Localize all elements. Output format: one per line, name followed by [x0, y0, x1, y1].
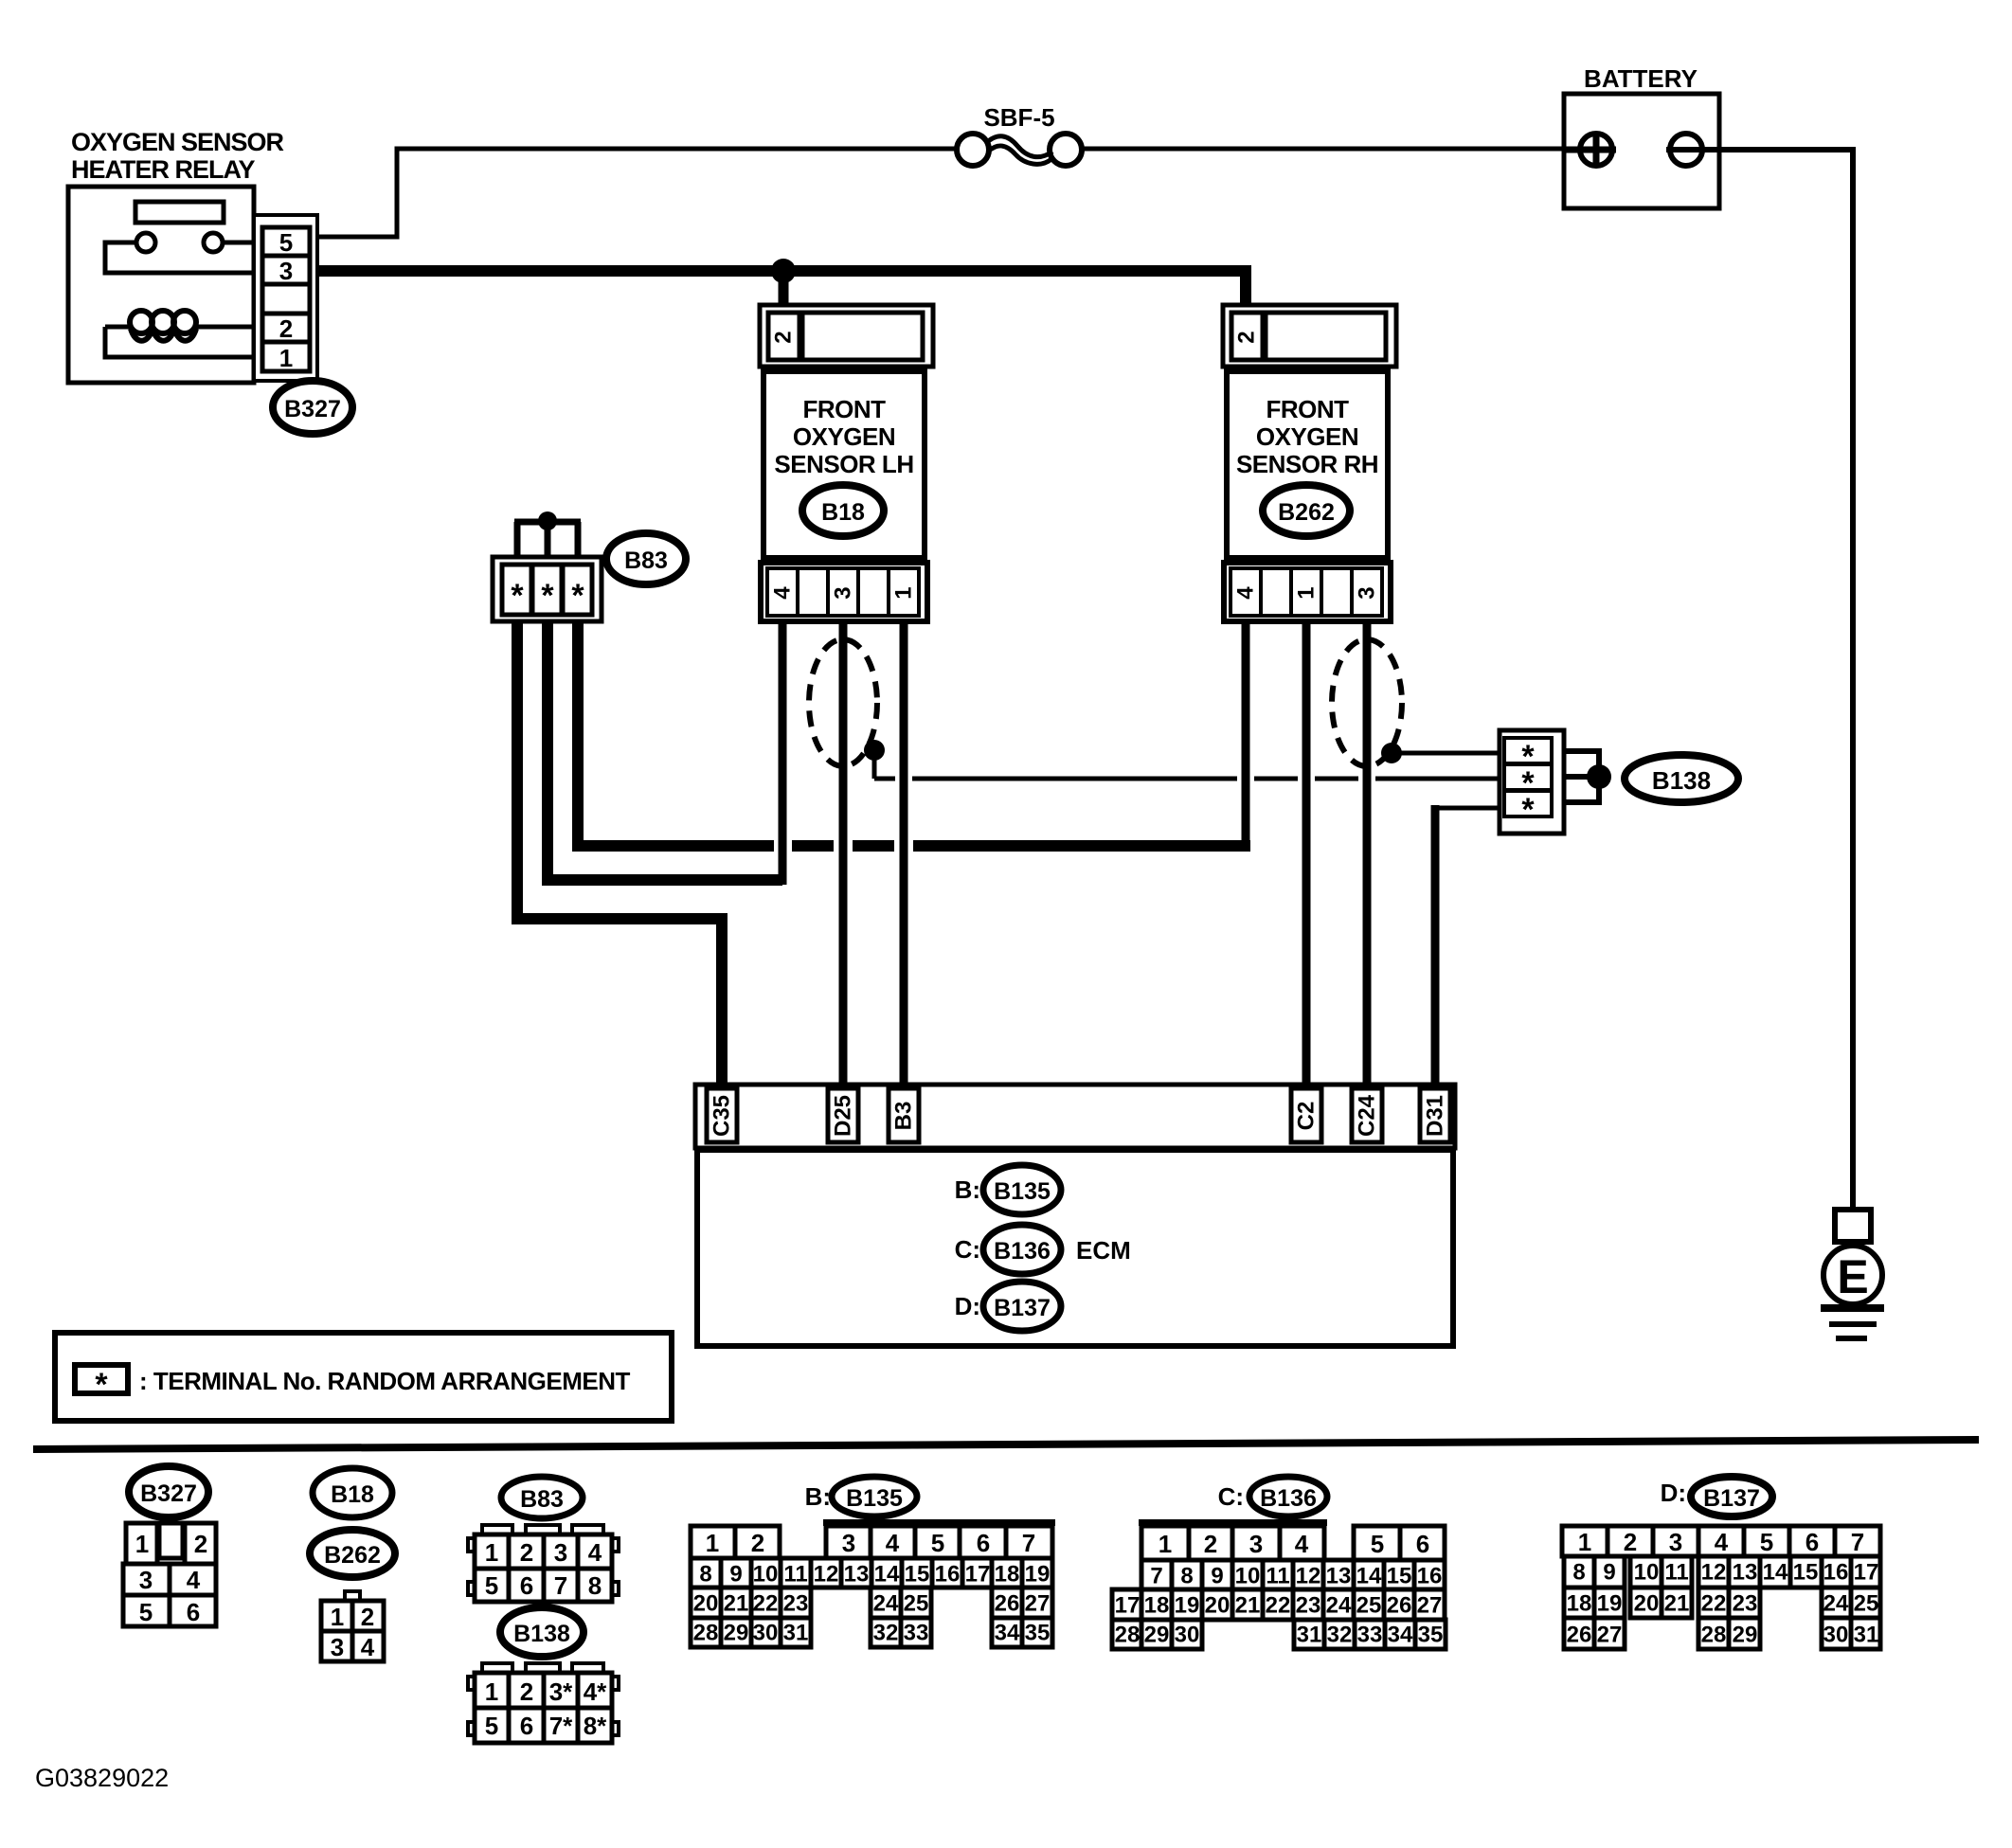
svg-text:B136: B136 — [1260, 1485, 1317, 1512]
svg-text:10: 10 — [1235, 1564, 1261, 1589]
B83 oval label — [606, 533, 686, 584]
svg-text:17: 17 — [1115, 1593, 1141, 1619]
svg-text:4: 4 — [1295, 1530, 1309, 1558]
svg-text:28: 28 — [1701, 1623, 1727, 1648]
svg-text:2: 2 — [1204, 1530, 1217, 1558]
svg-text:1: 1 — [279, 344, 293, 372]
battery positive terminal — [1563, 132, 1616, 168]
svg-text:2: 2 — [1234, 331, 1260, 343]
svg-text:9: 9 — [1603, 1560, 1615, 1586]
chart connector B136 — [1112, 1477, 1446, 1649]
wire: right contact to pin 5 — [223, 241, 263, 245]
svg-text:G03829022: G03829022 — [35, 1764, 169, 1792]
wire: B262 pin 1 down to ECM C2 — [1302, 616, 1311, 1089]
svg-text:5: 5 — [485, 1712, 498, 1740]
svg-text:B137: B137 — [1703, 1485, 1760, 1512]
svg-text:29: 29 — [1733, 1623, 1758, 1648]
svg-text:6: 6 — [1416, 1530, 1429, 1558]
svg-text:B138: B138 — [1652, 766, 1711, 795]
svg-text:6: 6 — [1805, 1528, 1819, 1556]
svg-text:17: 17 — [1854, 1560, 1879, 1586]
svg-text:31: 31 — [1297, 1623, 1322, 1648]
svg-text:C:: C: — [955, 1235, 980, 1264]
svg-text:9: 9 — [1211, 1564, 1223, 1589]
svg-text:B83: B83 — [624, 547, 668, 574]
ECM label C: B136 — [955, 1225, 1061, 1274]
svg-text:SENSOR LH: SENSOR LH — [774, 450, 913, 478]
svg-text:B:: B: — [805, 1482, 831, 1511]
ECM label D: B137 — [955, 1282, 1061, 1331]
shield drain node LH — [864, 740, 885, 761]
svg-text:OXYGEN: OXYGEN — [793, 422, 895, 451]
svg-text:D31: D31 — [1423, 1095, 1448, 1137]
svg-text:*: * — [571, 578, 584, 614]
ECM body — [697, 1150, 1453, 1346]
svg-text:15: 15 — [1793, 1560, 1819, 1586]
svg-text:4: 4 — [588, 1538, 602, 1567]
svg-text:32: 32 — [873, 1621, 899, 1646]
svg-text:2: 2 — [520, 1538, 533, 1567]
svg-text:4*: 4* — [584, 1678, 607, 1706]
wire: B83 cell2 route to B18 pin 4 — [548, 616, 782, 880]
svg-text:E: E — [1837, 1250, 1868, 1303]
wire: relay pin 5 to fuse SBF-5 — [317, 149, 957, 237]
svg-text:11: 11 — [783, 1562, 807, 1588]
svg-text:25: 25 — [1356, 1593, 1382, 1619]
svg-text:B135: B135 — [994, 1178, 1051, 1205]
svg-text:6: 6 — [520, 1571, 533, 1600]
shield drain node RH — [1381, 743, 1402, 763]
svg-text:22: 22 — [1266, 1593, 1291, 1619]
B83 bridge junction node — [538, 511, 557, 530]
svg-text:19: 19 — [1175, 1593, 1200, 1619]
svg-text:28: 28 — [1115, 1623, 1141, 1648]
front oxygen sensor LH pin strip — [761, 563, 927, 621]
svg-text:D25: D25 — [831, 1095, 856, 1137]
svg-text:3: 3 — [1355, 586, 1380, 599]
svg-text:B327: B327 — [140, 1480, 197, 1507]
svg-text:1: 1 — [485, 1678, 498, 1706]
svg-text:24: 24 — [873, 1591, 899, 1617]
svg-text:*: * — [511, 578, 524, 614]
svg-text:16: 16 — [1823, 1560, 1849, 1586]
svg-text:14: 14 — [1763, 1560, 1788, 1586]
svg-text:B262: B262 — [1278, 499, 1335, 526]
svg-text:2: 2 — [361, 1603, 374, 1631]
svg-text:23: 23 — [1296, 1593, 1321, 1619]
svg-text:B138: B138 — [513, 1621, 570, 1647]
svg-text:17: 17 — [965, 1562, 991, 1588]
front oxygen sensor RH body — [1227, 371, 1388, 558]
B138 connector box — [1500, 730, 1564, 834]
relay pin 1 — [262, 342, 310, 372]
ECM pin C35 — [707, 1088, 737, 1142]
svg-text:C2: C2 — [1294, 1102, 1320, 1131]
svg-text:2: 2 — [279, 314, 293, 343]
wire: B83 cell1 route to ECM C35 — [517, 616, 722, 1089]
svg-text:5: 5 — [139, 1598, 153, 1626]
svg-text:26: 26 — [995, 1591, 1020, 1617]
svg-text:12: 12 — [1296, 1564, 1321, 1589]
svg-text:3: 3 — [554, 1538, 567, 1567]
svg-text:8: 8 — [588, 1571, 602, 1600]
chart connector B327 — [123, 1466, 216, 1626]
svg-text:OXYGEN SENSOR: OXYGEN SENSOR — [71, 128, 284, 156]
wire: B18 pin 1 down to ECM B3 — [900, 616, 908, 1089]
chart connector B262 — [310, 1530, 395, 1661]
svg-text:B83: B83 — [520, 1486, 564, 1513]
wire: left contact to pin 3 — [105, 242, 263, 273]
oxygen sensor heater relay label — [71, 128, 284, 184]
svg-text:14: 14 — [1356, 1564, 1382, 1589]
svg-text:35: 35 — [1418, 1623, 1444, 1648]
svg-text:FRONT: FRONT — [802, 395, 886, 423]
svg-text:27: 27 — [1417, 1593, 1443, 1619]
svg-text:20: 20 — [1205, 1593, 1231, 1619]
svg-text:18: 18 — [995, 1562, 1020, 1588]
svg-text:5: 5 — [279, 228, 293, 257]
legend box — [55, 1333, 672, 1421]
connector label B327 — [273, 381, 352, 434]
svg-text:31: 31 — [783, 1621, 809, 1646]
svg-text:SENSOR RH: SENSOR RH — [1236, 450, 1378, 478]
wire: B138 bottom cell to ECM D31 — [1432, 805, 1504, 1089]
wire: bus tap down to LH sensor pin 2 — [779, 271, 789, 314]
svg-text:2: 2 — [1624, 1528, 1637, 1556]
svg-text:34: 34 — [995, 1621, 1020, 1646]
junction node on bus — [771, 259, 796, 283]
svg-text:ECM: ECM — [1076, 1236, 1131, 1265]
svg-text:C:: C: — [1218, 1482, 1244, 1511]
svg-text:3: 3 — [331, 1633, 344, 1661]
relay box outline — [68, 187, 254, 383]
svg-text:FRONT: FRONT — [1266, 395, 1349, 423]
svg-text:8: 8 — [1180, 1564, 1193, 1589]
svg-text:3: 3 — [279, 257, 293, 285]
svg-text:13: 13 — [1326, 1564, 1352, 1589]
svg-text:B18: B18 — [821, 499, 865, 526]
svg-text:14: 14 — [874, 1562, 900, 1588]
svg-text:15: 15 — [1387, 1564, 1412, 1589]
svg-text:22: 22 — [753, 1591, 779, 1617]
chart connector B137 — [1562, 1477, 1880, 1649]
shield ellipse around B262 pin3 wire — [1332, 639, 1402, 766]
B83 connector box — [493, 557, 602, 621]
svg-text:3*: 3* — [549, 1678, 573, 1706]
ECM pin D31 — [1420, 1088, 1450, 1142]
svg-text:19: 19 — [1597, 1591, 1623, 1617]
svg-text:OXYGEN: OXYGEN — [1256, 422, 1358, 451]
ECM pin C24 — [1352, 1088, 1382, 1142]
svg-text:33: 33 — [904, 1621, 929, 1646]
svg-text:C35: C35 — [710, 1095, 735, 1137]
fuse SBF-5 symbol — [957, 134, 1082, 166]
svg-text:25: 25 — [904, 1591, 929, 1617]
svg-text:4: 4 — [1715, 1528, 1729, 1556]
svg-text:*: * — [541, 578, 554, 614]
battery box — [1564, 94, 1719, 208]
svg-text:4: 4 — [886, 1529, 900, 1557]
svg-text:12: 12 — [814, 1562, 839, 1588]
svg-text:1: 1 — [891, 586, 917, 599]
svg-text:1: 1 — [331, 1603, 344, 1631]
svg-text:24: 24 — [1823, 1591, 1849, 1617]
svg-text:21: 21 — [1664, 1591, 1690, 1617]
svg-text:SBF-5: SBF-5 — [983, 103, 1054, 132]
front oxygen sensor LH body — [763, 371, 925, 558]
relay pin 5 — [262, 227, 310, 257]
chart connector B135 — [691, 1477, 1055, 1647]
svg-text:16: 16 — [1417, 1564, 1443, 1589]
svg-text:D:: D: — [955, 1292, 980, 1320]
svg-text:11: 11 — [1266, 1564, 1289, 1589]
svg-text:7: 7 — [1851, 1528, 1864, 1556]
svg-text:2: 2 — [194, 1530, 207, 1558]
relay connector B327 shell — [254, 215, 317, 381]
relay blank pin cell — [262, 284, 310, 314]
svg-text:4: 4 — [1233, 586, 1259, 600]
B138 link junction node — [1587, 764, 1611, 789]
wire: fuse to battery positive — [1082, 147, 1582, 152]
relay pin 3 — [262, 256, 310, 285]
svg-text:1: 1 — [706, 1529, 719, 1557]
ECM pin D25 — [828, 1088, 858, 1142]
wire: bus corner down to RH sensor pin 2 — [1240, 265, 1251, 314]
svg-text:21: 21 — [724, 1591, 749, 1617]
svg-text:2: 2 — [751, 1529, 764, 1557]
chart connector B138 — [468, 1607, 619, 1743]
svg-text:5: 5 — [931, 1529, 944, 1557]
svg-text:30: 30 — [1175, 1623, 1200, 1648]
svg-text:5: 5 — [485, 1571, 498, 1600]
svg-text:32: 32 — [1327, 1623, 1353, 1648]
svg-text:B135: B135 — [846, 1485, 903, 1512]
svg-text:20: 20 — [693, 1591, 719, 1617]
svg-text:1: 1 — [135, 1530, 149, 1558]
svg-text:6: 6 — [520, 1712, 533, 1740]
svg-text:8: 8 — [699, 1562, 711, 1588]
ECM pin B3 — [889, 1088, 919, 1142]
svg-text:3: 3 — [831, 586, 856, 599]
wire: RH shield drain to B138 top — [1392, 751, 1502, 756]
svg-text:1: 1 — [485, 1538, 498, 1567]
wire: LH shield drain to B138 middle (with breaks) — [874, 750, 1502, 779]
B83 top bridge wires — [514, 522, 581, 561]
svg-text:B:: B: — [955, 1175, 980, 1204]
shield ellipse around B18 pin3 wire — [809, 639, 877, 766]
svg-text:8*: 8* — [584, 1712, 607, 1740]
svg-text:34: 34 — [1388, 1623, 1413, 1648]
svg-text:29: 29 — [1144, 1623, 1170, 1648]
svg-text:21: 21 — [1235, 1593, 1261, 1619]
relay pin 2 — [262, 314, 310, 343]
svg-text:31: 31 — [1854, 1623, 1879, 1648]
svg-text:26: 26 — [1567, 1623, 1592, 1648]
separator rule — [33, 1440, 1979, 1449]
svg-text:9: 9 — [729, 1562, 742, 1588]
svg-text:1: 1 — [1159, 1530, 1172, 1558]
svg-text:B136: B136 — [994, 1238, 1051, 1265]
svg-text:4: 4 — [770, 586, 796, 600]
svg-text:8: 8 — [1572, 1560, 1585, 1586]
svg-text:26: 26 — [1387, 1593, 1412, 1619]
svg-text:B327: B327 — [284, 396, 341, 422]
wire: B83 cell3 route to B262 pin 4 (with crossover breaks) — [578, 616, 1250, 846]
svg-text:B18: B18 — [331, 1481, 374, 1508]
svg-text:5: 5 — [1760, 1528, 1773, 1556]
svg-text:3: 3 — [1249, 1530, 1263, 1558]
svg-text:16: 16 — [935, 1562, 961, 1588]
svg-text:11: 11 — [1664, 1560, 1688, 1586]
svg-text:28: 28 — [693, 1621, 719, 1646]
wire: B18 pin 4 down — [779, 616, 787, 885]
relay coil — [105, 311, 263, 357]
svg-text:18: 18 — [1567, 1591, 1592, 1617]
svg-text:6: 6 — [977, 1529, 990, 1557]
svg-text:4: 4 — [361, 1633, 375, 1661]
chart connector B18 label — [313, 1468, 392, 1517]
svg-text:12: 12 — [1701, 1560, 1727, 1586]
svg-text:20: 20 — [1634, 1591, 1660, 1617]
wire: B262 pin 3 down to ECM C24 — [1363, 616, 1372, 1089]
svg-text:BATTERY: BATTERY — [1584, 64, 1698, 93]
front oxygen sensor RH pin strip — [1224, 563, 1391, 621]
svg-text:5: 5 — [1371, 1530, 1384, 1558]
svg-text:: TERMINAL No. RANDOM ARRANGEM: : TERMINAL No. RANDOM ARRANGEMENT — [139, 1367, 631, 1395]
svg-text:23: 23 — [1733, 1591, 1758, 1617]
ECM connector strip — [695, 1085, 1455, 1148]
svg-text:30: 30 — [1823, 1623, 1849, 1648]
svg-text:24: 24 — [1326, 1593, 1352, 1619]
B138 right-side link wires — [1564, 751, 1599, 802]
ECM label B: B135 — [955, 1165, 1061, 1214]
svg-text:10: 10 — [753, 1562, 779, 1588]
svg-text:D:: D: — [1661, 1479, 1686, 1507]
svg-text:1: 1 — [1578, 1528, 1591, 1556]
wire: B262 pin 4 down — [1242, 616, 1250, 851]
svg-text:27: 27 — [1025, 1591, 1051, 1617]
svg-text:HEATER RELAY: HEATER RELAY — [71, 155, 256, 184]
relay top bar — [135, 202, 224, 223]
svg-text:27: 27 — [1597, 1623, 1623, 1648]
svg-text:25: 25 — [1854, 1591, 1879, 1617]
svg-text:19: 19 — [1025, 1562, 1051, 1588]
svg-text:23: 23 — [783, 1591, 809, 1617]
wire: thick bus relay pin3 to sensors — [317, 265, 1246, 277]
svg-text:10: 10 — [1634, 1560, 1660, 1586]
svg-text:6: 6 — [187, 1598, 200, 1626]
svg-text:4: 4 — [187, 1566, 201, 1594]
relay switch contact left — [136, 233, 155, 252]
ground symbol E — [1821, 1210, 1884, 1338]
svg-text:B3: B3 — [891, 1102, 917, 1131]
svg-text:18: 18 — [1144, 1593, 1170, 1619]
svg-text:13: 13 — [1733, 1560, 1758, 1586]
svg-text:7: 7 — [554, 1571, 567, 1600]
wire: battery negative to ground drop — [1666, 150, 1853, 1211]
svg-text:13: 13 — [844, 1562, 870, 1588]
svg-text:1: 1 — [1294, 586, 1320, 599]
svg-text:35: 35 — [1025, 1621, 1051, 1646]
svg-text:3: 3 — [842, 1529, 855, 1557]
svg-text:2: 2 — [771, 331, 797, 343]
relay switch contact right — [204, 233, 223, 252]
svg-text:3: 3 — [139, 1566, 153, 1594]
svg-text:33: 33 — [1357, 1623, 1383, 1648]
svg-text:7*: 7* — [549, 1712, 573, 1740]
battery negative terminal — [1670, 134, 1702, 166]
ECM pin C2 — [1291, 1088, 1321, 1142]
svg-text:*: * — [95, 1367, 108, 1403]
svg-text:*: * — [1521, 792, 1535, 828]
svg-text:15: 15 — [905, 1562, 930, 1588]
svg-text:3: 3 — [1669, 1528, 1682, 1556]
svg-text:7: 7 — [1022, 1529, 1035, 1557]
svg-text:22: 22 — [1701, 1591, 1727, 1617]
svg-text:30: 30 — [753, 1621, 779, 1646]
front oxygen sensor LH top connector — [760, 305, 933, 367]
svg-text:C24: C24 — [1355, 1094, 1380, 1137]
wire: B18 pin 3 down to ECM D25 — [839, 616, 848, 1089]
front oxygen sensor RH top connector — [1223, 305, 1396, 367]
svg-text:2: 2 — [520, 1678, 533, 1706]
svg-text:7: 7 — [1150, 1564, 1162, 1589]
chart connector B83 — [468, 1477, 619, 1602]
svg-text:29: 29 — [724, 1621, 749, 1646]
B138 oval label — [1625, 755, 1738, 802]
svg-text:B137: B137 — [994, 1295, 1051, 1321]
svg-text:B262: B262 — [324, 1542, 381, 1569]
